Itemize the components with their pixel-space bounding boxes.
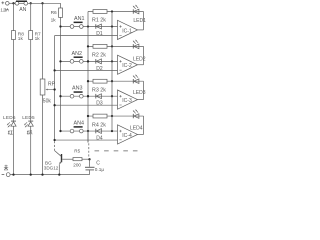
potentiometer RP [40, 79, 45, 95]
svg-text:IC-3: IC-3 [122, 98, 132, 104]
wire RP bottom [42, 95, 44, 175]
minus bus nodes [53, 69, 55, 71]
wiper arrow RP [48, 89, 55, 91]
svg-text:3DG12: 3DG12 [44, 166, 59, 171]
op-amp IC-3 [118, 90, 138, 109]
capacitor C [89, 159, 91, 166]
wire bus A lower stub [87, 131, 89, 142]
wire minus input 3 [55, 104, 118, 106]
wire output 1 [138, 29, 144, 31]
svg-text:LED4: LED4 [130, 126, 143, 132]
bus node B vertical [111, 12, 113, 132]
wire R8 branch [13, 3, 15, 121]
wire channel 3 top feedback [88, 80, 144, 82]
label lv green glyph [27, 130, 32, 134]
wire button row 3 [61, 95, 118, 97]
LED LED4 [132, 114, 134, 118]
wire output 4 [138, 133, 144, 135]
node button line 3 [59, 95, 61, 97]
wire channel 4 top feedback [88, 115, 144, 117]
node A3 [87, 95, 89, 97]
wire button row 1 [61, 26, 118, 28]
svg-text:0.1μ: 0.1μ [95, 167, 105, 172]
svg-text:IC-2: IC-2 [122, 63, 132, 69]
svg-text:R2 2k: R2 2k [92, 53, 106, 59]
svg-text:IC-4: IC-4 [122, 133, 132, 139]
svg-text:R4 2k: R4 2k [92, 122, 106, 128]
LED6 [11, 120, 16, 122]
wire R5 to node [82, 158, 90, 160]
node B3 [111, 95, 113, 97]
node B2 [111, 60, 113, 62]
svg-text:1k: 1k [18, 36, 24, 42]
pushbutton AN3 [70, 94, 74, 98]
wire LED6 to ground [13, 126, 15, 174]
svg-text:LED2: LED2 [133, 56, 146, 62]
op-amp IC-2 [118, 55, 138, 74]
diode D2 [95, 59, 97, 64]
wire minus input 4 [55, 139, 118, 141]
svg-text:LED1: LED1 [133, 18, 146, 24]
wire minus input 1 [55, 35, 118, 37]
node B3 top [111, 80, 113, 82]
dashed expansion vertical [88, 143, 90, 157]
svg-text:AN2: AN2 [72, 51, 83, 57]
bus A nodes [87, 45, 89, 47]
svg-text:LED3: LED3 [133, 90, 146, 96]
wire [9, 2, 15, 4]
resistor R3 [93, 79, 107, 83]
svg-text:AN3: AN3 [72, 86, 83, 92]
label fu volt glyph [6, 8, 9, 12]
wire output 2 [138, 64, 144, 66]
dashed expansion horizontal [95, 150, 142, 152]
node J2 [30, 2, 32, 4]
node A1 [87, 25, 89, 27]
wire rail to R6 corner [28, 2, 61, 4]
resistor R7 [29, 31, 33, 40]
dashed wire to collector [54, 141, 56, 150]
resistor R4 [93, 114, 107, 118]
LED LED2 [132, 44, 134, 48]
svg-text:LED6: LED6 [3, 115, 16, 120]
wire minus input 2 [55, 69, 118, 71]
svg-text:1k: 1k [35, 36, 41, 42]
svg-text:LED5: LED5 [22, 115, 35, 120]
wire button row 2 [61, 60, 118, 62]
svg-text:IC-1: IC-1 [122, 28, 132, 34]
svg-text:AN1: AN1 [74, 16, 85, 22]
node J3 [41, 2, 43, 4]
ground rail nodes [12, 173, 14, 175]
switch AN [15, 2, 28, 4]
+12V terminal [1, 2, 4, 4]
resistor R8 [12, 31, 16, 40]
wire channel 2 top feedback [88, 45, 144, 47]
wire channel 1 top feedback [88, 11, 144, 13]
op-amp IC-4 [118, 125, 138, 144]
resistor R6 [59, 8, 63, 17]
wire R7 branch [30, 3, 32, 121]
node J1 [12, 2, 14, 4]
minus bus [54, 36, 56, 141]
node button line 1 [59, 25, 61, 27]
wire button row 4 [61, 130, 118, 132]
svg-text:D3: D3 [96, 101, 103, 107]
svg-text:C: C [96, 161, 100, 167]
node button line 2 [59, 60, 61, 62]
wire R6 drop [60, 3, 62, 131]
svg-text:R5: R5 [74, 148, 80, 153]
LED LED3 [132, 79, 134, 83]
pushbutton AN4 [70, 129, 74, 133]
svg-text:D4: D4 [96, 136, 103, 142]
svg-text:200: 200 [73, 163, 81, 168]
node B2 top [111, 45, 113, 47]
wire RP top [42, 3, 44, 79]
resistor R2 [93, 44, 107, 48]
LED5 [28, 120, 33, 122]
svg-text:R3 2k: R3 2k [92, 87, 106, 93]
svg-text:R1 2k: R1 2k [92, 18, 106, 24]
diode D4 [95, 129, 97, 134]
wire output 3 [138, 99, 144, 101]
pushbutton AN2 [70, 60, 74, 64]
node B1 top [111, 10, 113, 12]
svg-text:R6: R6 [51, 10, 57, 16]
svg-text:1k: 1k [51, 17, 57, 23]
diode D3 [95, 94, 97, 99]
transistor BG 3DG12 [61, 154, 62, 162]
ground rail [10, 174, 89, 176]
resistor R5 [73, 158, 82, 161]
node button line 4 [59, 130, 61, 132]
svg-text:AN: AN [19, 7, 26, 13]
node A2 [87, 60, 89, 62]
wire LED5 to ground [30, 126, 32, 174]
node B1 [111, 25, 113, 27]
LED LED1 [132, 9, 134, 13]
node B4 top [111, 115, 113, 117]
svg-text:50k: 50k [43, 99, 52, 105]
diode D1 [95, 24, 97, 29]
svg-text:D1: D1 [96, 31, 103, 37]
op-amp IC-1 [118, 20, 138, 39]
svg-text:12: 12 [0, 7, 6, 12]
node B4 [111, 130, 113, 132]
node A4 [87, 130, 89, 132]
svg-text:AN4: AN4 [74, 120, 85, 126]
bus node A vertical [87, 12, 89, 143]
label lai glyph [4, 165, 8, 171]
node R5/C [88, 158, 90, 160]
pushbutton AN1 [70, 25, 74, 29]
svg-text:D2: D2 [96, 66, 103, 72]
resistor R1 [93, 10, 107, 14]
label hong red glyph [8, 130, 13, 134]
negative terminal [2, 174, 5, 176]
